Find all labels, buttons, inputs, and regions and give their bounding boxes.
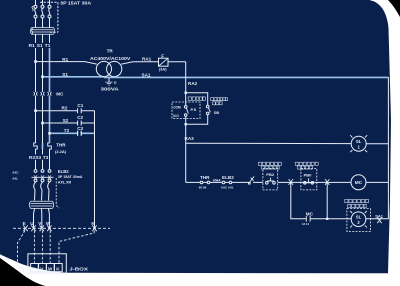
- svg-text:RA1: RA1: [142, 56, 152, 61]
- svg-text:C2: C2: [77, 115, 83, 120]
- svg-text:J-BOX: J-BOX: [69, 266, 89, 271]
- svg-text:13 14: 13 14: [302, 222, 309, 226]
- svg-text:PB2: PB2: [266, 172, 275, 177]
- svg-text:AXC: AXC: [12, 170, 19, 174]
- svg-text:SL: SL: [356, 139, 362, 144]
- svg-text:SA1: SA1: [142, 72, 151, 77]
- svg-text:R2: R2: [62, 106, 68, 111]
- svg-text:S3: S3: [35, 155, 41, 160]
- svg-text:S2: S2: [63, 118, 69, 123]
- svg-text:3P 15AT 30A: 3P 15AT 30A: [60, 0, 92, 5]
- svg-text:ELB2: ELB2: [58, 169, 69, 174]
- svg-text:AXC AXL: AXC AXL: [221, 185, 234, 189]
- svg-text:C3: C3: [77, 126, 83, 131]
- svg-text:COM: COM: [173, 106, 181, 110]
- svg-text:F: F: [161, 54, 164, 59]
- svg-text:T3: T3: [43, 155, 49, 160]
- svg-text:N.O: N.O: [173, 114, 179, 118]
- svg-text:SW: SW: [214, 111, 220, 115]
- svg-text:PB0: PB0: [304, 172, 313, 177]
- svg-text:W: W: [48, 266, 53, 271]
- svg-text:RA2: RA2: [188, 81, 198, 86]
- svg-text:TR: TR: [107, 49, 114, 54]
- svg-text:AC400V/AC100V: AC400V/AC100V: [90, 56, 131, 61]
- svg-text:MC: MC: [355, 180, 363, 186]
- svg-text:AXL.XR: AXL.XR: [58, 180, 72, 184]
- svg-text:R1: R1: [29, 43, 35, 49]
- svg-text:C1: C1: [77, 103, 83, 108]
- svg-text:P.S: P.S: [191, 108, 197, 112]
- svg-text:R3: R3: [29, 155, 35, 160]
- svg-text:3P 15AT 30mA: 3P 15AT 30mA: [58, 175, 83, 179]
- svg-text:MC: MC: [56, 91, 64, 96]
- svg-text:RA4: RA4: [213, 178, 220, 182]
- svg-text:S1: S1: [37, 43, 43, 49]
- svg-text:S1: S1: [62, 72, 68, 77]
- svg-text:W: W: [46, 221, 51, 226]
- svg-text:(3A): (3A): [159, 67, 167, 72]
- svg-text:T1: T1: [45, 43, 51, 49]
- svg-text:95 96: 95 96: [199, 185, 207, 189]
- svg-text:(2.2A): (2.2A): [55, 149, 67, 154]
- svg-text:RA3: RA3: [185, 136, 195, 141]
- svg-text:300VA: 300VA: [101, 87, 120, 93]
- svg-text:R1: R1: [62, 57, 68, 62]
- svg-text:SL: SL: [356, 214, 362, 219]
- svg-text:T2: T2: [64, 128, 70, 133]
- svg-text:MC: MC: [306, 212, 314, 217]
- svg-text:AXL: AXL: [12, 177, 18, 181]
- svg-text:SA1: SA1: [375, 214, 384, 219]
- svg-text:THR: THR: [56, 143, 66, 148]
- svg-text:ELB2: ELB2: [222, 175, 234, 180]
- svg-text:THR: THR: [200, 175, 210, 180]
- svg-text:E: E: [23, 221, 26, 226]
